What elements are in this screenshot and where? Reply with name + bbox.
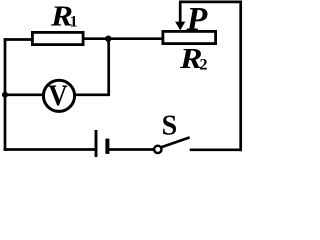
svg-text:S: S bbox=[162, 111, 178, 142]
wire bottom left bbox=[4, 148, 95, 151]
wiper arrowhead bbox=[175, 22, 185, 31]
switch lever bbox=[162, 137, 190, 147]
wiper wire vertical bbox=[179, 2, 182, 23]
wire top-right horizontal bbox=[179, 1, 242, 4]
voltmeter V bbox=[43, 80, 74, 111]
battery cell short plate bbox=[105, 139, 109, 154]
wire left vertical bbox=[4, 38, 7, 151]
svg-text:1: 1 bbox=[70, 13, 78, 30]
rheostat R2 bbox=[163, 31, 216, 43]
wire voltmeter left bbox=[4, 93, 44, 96]
resistor R1 bbox=[32, 32, 83, 44]
switch S pivot bbox=[154, 146, 161, 153]
wire top-left horizontal bbox=[4, 38, 33, 41]
wire right vertical bbox=[239, 2, 242, 151]
node left junction bbox=[2, 92, 8, 98]
svg-text:V: V bbox=[48, 79, 68, 112]
junction node A bbox=[105, 36, 111, 42]
svg-text:2: 2 bbox=[200, 56, 208, 73]
wire battery to switch bbox=[109, 148, 154, 151]
wire switch to bottom-right bbox=[190, 148, 242, 151]
wire R1 to R2 bbox=[83, 37, 164, 40]
wire voltmeter right bbox=[74, 93, 110, 96]
battery cell long plate bbox=[95, 130, 98, 157]
wire junction down to voltmeter bbox=[107, 39, 110, 96]
